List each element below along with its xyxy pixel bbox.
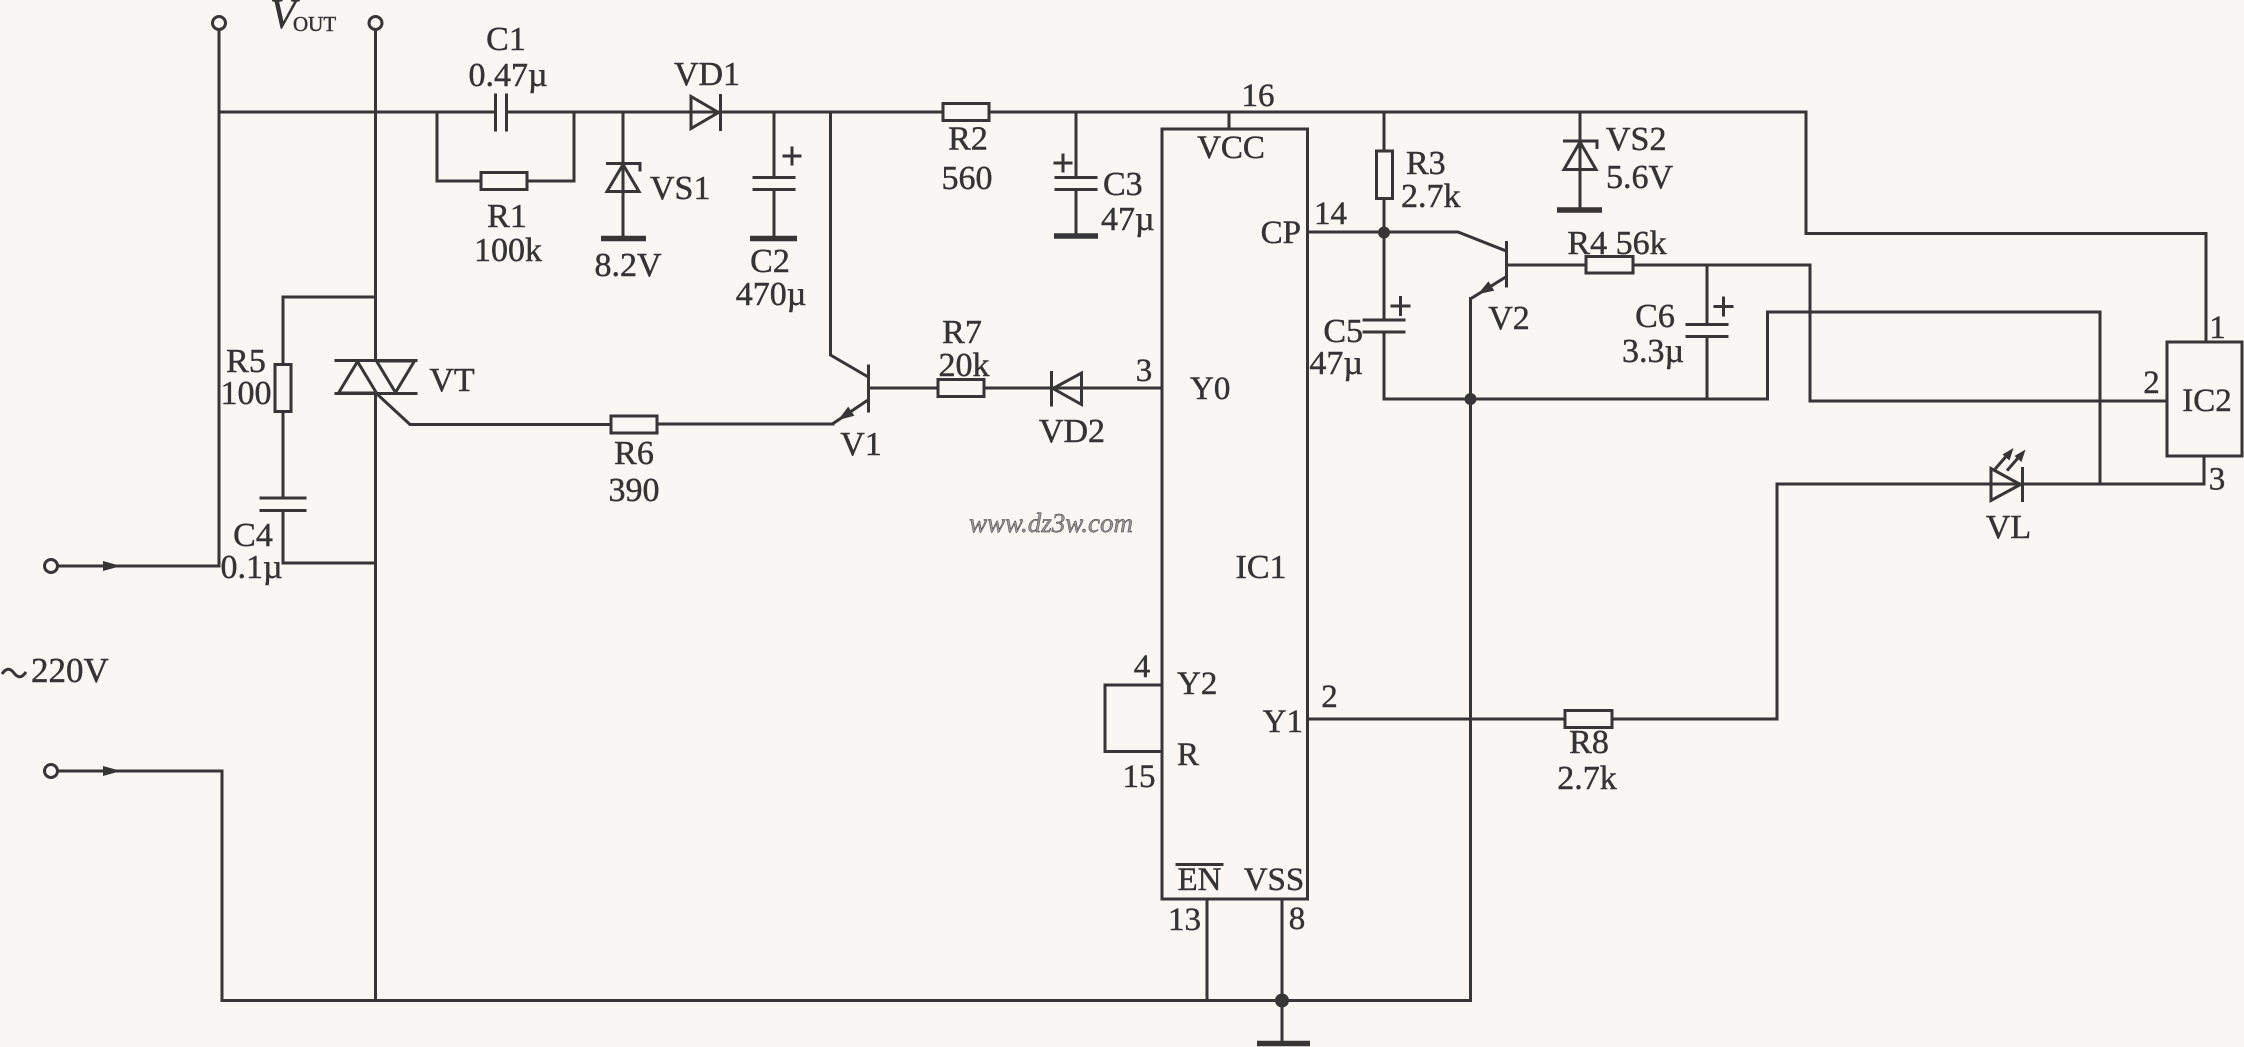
- svg-text:8.2V: 8.2V: [594, 247, 662, 284]
- svg-text:R8: R8: [1569, 724, 1609, 761]
- junction CP node: [1378, 227, 1390, 239]
- transistor V1: [831, 112, 882, 463]
- capacitor C2: [736, 112, 807, 313]
- zener VS1: [606, 112, 710, 236]
- capacitor C4: [220, 498, 375, 586]
- terminal AC input lower: [45, 765, 223, 1001]
- svg-text:C3: C3: [1103, 166, 1143, 203]
- svg-text:C2: C2: [750, 243, 790, 280]
- svg-text:2.7k: 2.7k: [1401, 178, 1461, 215]
- svg-text:OUT: OUT: [293, 12, 336, 36]
- resistor R1: [437, 112, 574, 269]
- resistor R2: [942, 104, 993, 198]
- svg-text:560: 560: [942, 160, 993, 197]
- svg-text:470µ: 470µ: [736, 276, 807, 313]
- wire triac down to bottom rail: [374, 394, 377, 1001]
- junction VSS node: [1275, 994, 1289, 1008]
- wire emitter node to IC2 pin3 riser: [1384, 312, 2100, 484]
- svg-text:Y0: Y0: [1190, 371, 1230, 407]
- wire R6 to triac gate: [377, 394, 612, 425]
- svg-text:2.7k: 2.7k: [1557, 760, 1617, 797]
- svg-text:5.6V: 5.6V: [1606, 159, 1674, 196]
- diode VD1: [674, 56, 740, 130]
- svg-text:V1: V1: [840, 426, 882, 463]
- svg-text:R1: R1: [487, 198, 527, 235]
- svg-text:47µ: 47µ: [1101, 201, 1155, 238]
- svg-text:0.1µ: 0.1µ: [220, 549, 282, 586]
- pin 3 Y0: [1136, 353, 1231, 407]
- wire VOUT-left vertical: [218, 30, 221, 567]
- wire main top rail: [219, 112, 2206, 342]
- LED VL: [1986, 448, 2031, 546]
- resistor R8: [1557, 711, 1617, 798]
- resistor R3: [1377, 112, 1461, 232]
- svg-text:4: 4: [1134, 649, 1151, 685]
- svg-text:R: R: [1177, 737, 1199, 773]
- svg-text:VCC: VCC: [1197, 130, 1265, 166]
- svg-text:EN: EN: [1178, 862, 1222, 898]
- svg-text:16: 16: [1242, 78, 1275, 114]
- wire R4 to IC2 pin2: [1633, 265, 2167, 401]
- wire V2 collector to R4: [1509, 264, 1587, 267]
- svg-text:15: 15: [1123, 759, 1156, 795]
- resistor R5: [221, 297, 376, 498]
- svg-text:100k: 100k: [474, 232, 542, 269]
- pin 4 Y2 / pin 15 R loop: [1105, 649, 1217, 795]
- pin 2 Y1: [1263, 679, 1565, 740]
- svg-text:VS2: VS2: [1606, 121, 1666, 158]
- svg-text:R3: R3: [1406, 145, 1446, 182]
- resistor R6: [609, 416, 660, 509]
- svg-text:13: 13: [1168, 902, 1201, 938]
- pin 13 EN: [1168, 862, 1222, 1001]
- svg-text:C6: C6: [1635, 298, 1675, 335]
- svg-text:R4 56k: R4 56k: [1567, 225, 1666, 262]
- svg-text:R2: R2: [948, 121, 988, 158]
- svg-text:R7: R7: [942, 314, 982, 351]
- terminal VOUT left: [213, 17, 226, 30]
- wire V1 emitter to R6: [657, 423, 833, 426]
- svg-text:VD2: VD2: [1039, 413, 1105, 450]
- ground VS2: [1557, 207, 1602, 213]
- svg-text:IC1: IC1: [1236, 549, 1287, 586]
- svg-text:Y1: Y1: [1263, 704, 1303, 740]
- svg-text:V2: V2: [1488, 300, 1530, 337]
- svg-text:Y2: Y2: [1177, 666, 1217, 702]
- wire R7 to IC1 pin3 through VD2: [984, 387, 1162, 390]
- wire VOUT-right vertical to triac: [374, 30, 377, 361]
- label VOUT: [270, 0, 336, 38]
- svg-text:www.dz3w.com: www.dz3w.com: [969, 508, 1133, 538]
- capacitor C6: [1622, 265, 1732, 399]
- svg-text:VD1: VD1: [674, 56, 740, 93]
- svg-text:R6: R6: [614, 435, 654, 472]
- capacitor C3: [1055, 112, 1155, 238]
- svg-text:390: 390: [609, 472, 660, 509]
- wire R8 to LED rail: [1612, 484, 1777, 719]
- ground C2: [750, 236, 797, 242]
- wire LED rail: [1777, 456, 2204, 484]
- svg-text:2: 2: [1321, 679, 1338, 715]
- svg-text:1: 1: [2209, 310, 2226, 346]
- svg-text:220V: 220V: [31, 651, 109, 690]
- pin 14 CP: [1261, 196, 1384, 251]
- transistor V2: [1384, 232, 1530, 337]
- svg-text:VL: VL: [1986, 509, 2031, 546]
- svg-text:14: 14: [1314, 196, 1347, 232]
- capacitor C1: [468, 21, 547, 130]
- svg-text:2: 2: [2143, 365, 2160, 401]
- svg-text:IC2: IC2: [2182, 383, 2232, 419]
- capacitor C5: [1309, 233, 1409, 400]
- svg-text:3: 3: [1136, 353, 1153, 389]
- pin 16 VCC: [1197, 78, 1274, 166]
- IC U2 IC2: [2167, 342, 2242, 456]
- IC U1 IC1: [1162, 129, 1308, 899]
- zener VS2: [1563, 112, 1674, 207]
- svg-text:100: 100: [221, 375, 272, 412]
- svg-text:VSS: VSS: [1244, 862, 1305, 898]
- diode VD2: [1039, 373, 1105, 451]
- svg-text:CP: CP: [1261, 215, 1301, 251]
- ground VS1 8.2V: [594, 239, 662, 285]
- resistor R7: [938, 314, 990, 397]
- junction emitter node: [1465, 393, 1477, 405]
- terminal VOUT right: [369, 17, 382, 30]
- svg-text:8: 8: [1289, 901, 1306, 937]
- ground main: [1257, 1001, 1310, 1044]
- svg-text:VT: VT: [429, 362, 475, 399]
- svg-text:VS1: VS1: [650, 170, 710, 207]
- terminal AC input upper: [45, 560, 220, 573]
- wire V2 emitter down: [1469, 299, 1472, 1001]
- resistor R4: [1567, 225, 1666, 273]
- svg-text:C1: C1: [486, 21, 526, 58]
- wire V1 base to R7: [869, 387, 938, 390]
- ground C3: [1054, 233, 1098, 239]
- svg-text:3: 3: [2209, 462, 2226, 498]
- triac VT: [336, 361, 475, 400]
- wire bottom rail: [222, 999, 1471, 1002]
- svg-text:0.47µ: 0.47µ: [468, 57, 547, 94]
- svg-text:3.3µ: 3.3µ: [1622, 333, 1684, 370]
- svg-text:47µ: 47µ: [1309, 345, 1363, 382]
- svg-text:20k: 20k: [939, 347, 990, 384]
- pin 8 VSS: [1244, 862, 1306, 1001]
- label 220V: [2, 651, 109, 690]
